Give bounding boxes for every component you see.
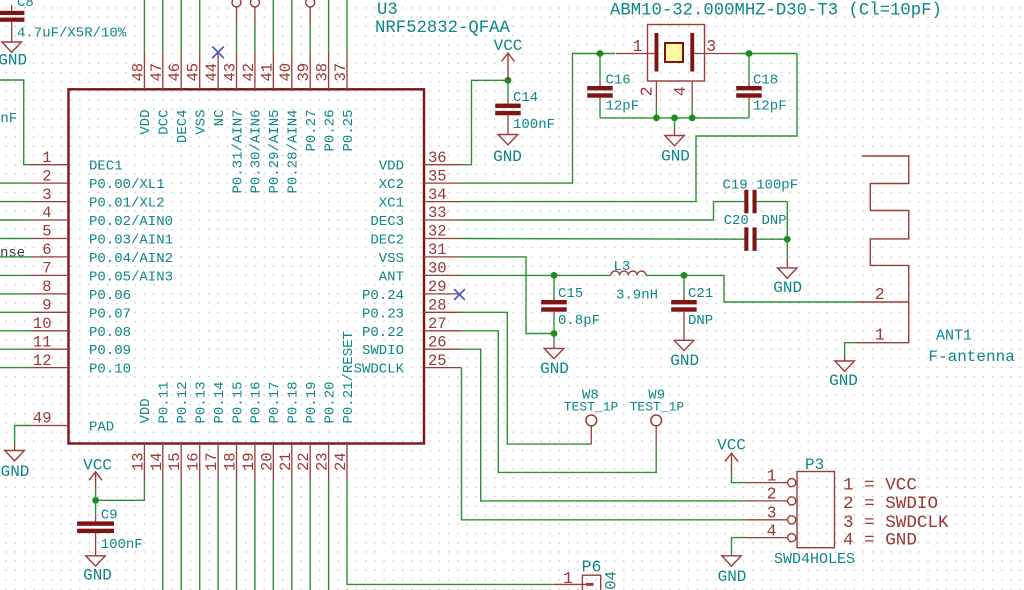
svg-text:XC1: XC1 bbox=[379, 196, 404, 212]
svg-text:47: 47 bbox=[148, 63, 166, 82]
svg-text:10: 10 bbox=[33, 315, 52, 333]
svg-text:P0.15: P0.15 bbox=[230, 381, 246, 423]
svg-text:P0.22: P0.22 bbox=[362, 325, 404, 341]
svg-text:SWD4HOLES: SWD4HOLES bbox=[774, 551, 855, 568]
svg-text:12pF: 12pF bbox=[753, 99, 787, 115]
svg-text:P3: P3 bbox=[805, 456, 824, 474]
svg-text:P0.20: P0.20 bbox=[322, 381, 338, 423]
svg-text:2: 2 bbox=[42, 167, 51, 185]
svg-text:P0.26: P0.26 bbox=[322, 110, 338, 152]
svg-text:P0.04/AIN2: P0.04/AIN2 bbox=[89, 251, 173, 267]
svg-text:P0.06: P0.06 bbox=[89, 288, 131, 304]
svg-text:38: 38 bbox=[314, 63, 332, 82]
svg-text:30: 30 bbox=[428, 260, 447, 278]
svg-text:PAD: PAD bbox=[89, 420, 114, 436]
svg-text:P0.03/AIN1: P0.03/AIN1 bbox=[89, 233, 173, 249]
svg-text:L3: L3 bbox=[614, 259, 631, 275]
svg-text:P0.18: P0.18 bbox=[286, 381, 302, 423]
svg-text:ANT: ANT bbox=[379, 269, 404, 285]
svg-text:Sense: Sense bbox=[0, 245, 25, 261]
svg-text:VCC: VCC bbox=[494, 37, 523, 55]
svg-text:3: 3 bbox=[706, 37, 716, 56]
svg-text:37: 37 bbox=[332, 63, 350, 82]
svg-text:P0.01/XL2: P0.01/XL2 bbox=[89, 196, 165, 212]
svg-text:8: 8 bbox=[42, 278, 51, 296]
svg-text:C20: C20 bbox=[724, 213, 749, 229]
svg-text:VSS: VSS bbox=[194, 110, 210, 135]
svg-text:P0.02/AIN0: P0.02/AIN0 bbox=[89, 214, 173, 230]
svg-text:P0.14: P0.14 bbox=[212, 381, 228, 423]
svg-text:15: 15 bbox=[166, 452, 184, 471]
svg-text:P0.29/AIN5: P0.29/AIN5 bbox=[267, 110, 283, 194]
svg-text:NC: NC bbox=[212, 110, 228, 127]
svg-text:27: 27 bbox=[428, 315, 447, 333]
svg-text:C15: C15 bbox=[558, 286, 583, 302]
svg-text:17: 17 bbox=[203, 452, 221, 471]
svg-text:GND: GND bbox=[829, 372, 858, 390]
svg-text:P0.16: P0.16 bbox=[249, 381, 265, 423]
svg-text:C21: C21 bbox=[688, 286, 713, 302]
svg-text:P0.21/RESET: P0.21/RESET bbox=[341, 331, 357, 423]
svg-text:DEC3: DEC3 bbox=[370, 214, 404, 230]
svg-text:C19 100pF: C19 100pF bbox=[723, 178, 799, 194]
svg-text:1: 1 bbox=[767, 466, 777, 485]
svg-text:C18: C18 bbox=[753, 73, 778, 89]
svg-text:F-antenna: F-antenna bbox=[928, 348, 1015, 366]
svg-text:P0.12: P0.12 bbox=[175, 381, 191, 423]
svg-text:12pF: 12pF bbox=[606, 99, 640, 115]
svg-text:P0.11: P0.11 bbox=[157, 381, 173, 423]
svg-text:18: 18 bbox=[222, 452, 240, 471]
svg-text:P6: P6 bbox=[582, 558, 602, 577]
svg-text:21: 21 bbox=[277, 452, 295, 471]
svg-text:42: 42 bbox=[240, 63, 258, 82]
svg-text:GND: GND bbox=[493, 148, 522, 166]
svg-text:36: 36 bbox=[428, 149, 447, 167]
svg-text:P0.31/AIN7: P0.31/AIN7 bbox=[230, 109, 246, 193]
svg-text:GND: GND bbox=[773, 279, 802, 297]
svg-text:TEST_1P: TEST_1P bbox=[630, 400, 685, 415]
svg-text:VCC: VCC bbox=[83, 456, 112, 474]
svg-text:33: 33 bbox=[428, 204, 447, 222]
svg-text:P0.27: P0.27 bbox=[304, 110, 320, 152]
svg-text:4 = GND: 4 = GND bbox=[843, 531, 917, 551]
svg-text:P0.23: P0.23 bbox=[362, 306, 404, 322]
svg-text:14: 14 bbox=[148, 452, 166, 471]
svg-text:NRF52832-QFAA: NRF52832-QFAA bbox=[375, 19, 510, 38]
svg-text:11: 11 bbox=[33, 333, 52, 351]
svg-text:25: 25 bbox=[428, 352, 447, 370]
svg-text:29: 29 bbox=[428, 278, 447, 296]
svg-text:2: 2 bbox=[767, 485, 777, 504]
svg-text:44: 44 bbox=[203, 63, 221, 82]
svg-text:12: 12 bbox=[33, 352, 52, 370]
svg-text:P0.19: P0.19 bbox=[304, 381, 320, 423]
svg-text:GND: GND bbox=[540, 360, 569, 378]
svg-text:DNP: DNP bbox=[762, 213, 787, 229]
svg-text:VCC: VCC bbox=[717, 437, 746, 455]
svg-text:45: 45 bbox=[185, 63, 203, 82]
svg-text:VDD: VDD bbox=[138, 398, 154, 423]
svg-text:P0.07: P0.07 bbox=[89, 306, 131, 322]
svg-text:2: 2 bbox=[875, 285, 885, 304]
svg-text:34: 34 bbox=[428, 186, 447, 204]
svg-text:P0.09: P0.09 bbox=[89, 343, 131, 359]
svg-text:100nF: 100nF bbox=[513, 117, 555, 133]
svg-text:0.8pF: 0.8pF bbox=[558, 313, 600, 329]
svg-text:4.7uF/X5R/10%: 4.7uF/X5R/10% bbox=[17, 26, 127, 42]
svg-text:P0.13: P0.13 bbox=[194, 381, 210, 423]
svg-text:16: 16 bbox=[185, 452, 203, 471]
svg-text:1: 1 bbox=[875, 326, 885, 345]
svg-text:22: 22 bbox=[295, 452, 313, 471]
svg-text:P0.00/XL1: P0.00/XL1 bbox=[89, 177, 165, 193]
svg-text:1 = VCC: 1 = VCC bbox=[843, 476, 917, 496]
svg-text:GND: GND bbox=[0, 52, 27, 70]
svg-text:U3: U3 bbox=[377, 1, 398, 20]
svg-text:4: 4 bbox=[42, 204, 51, 222]
svg-text:DEC2: DEC2 bbox=[370, 233, 404, 249]
svg-text:DNP: DNP bbox=[688, 313, 713, 329]
svg-text:DCC: DCC bbox=[157, 110, 173, 135]
svg-text:28: 28 bbox=[428, 297, 447, 315]
svg-text:2 = SWDIO: 2 = SWDIO bbox=[843, 494, 938, 514]
svg-text:6: 6 bbox=[42, 241, 51, 259]
svg-text:39: 39 bbox=[295, 63, 313, 82]
svg-text:100nF: 100nF bbox=[101, 537, 143, 553]
svg-text:TEST_1P: TEST_1P bbox=[564, 400, 619, 415]
svg-text:P0.30/AIN6: P0.30/AIN6 bbox=[249, 110, 265, 194]
svg-text:SWDIO: SWDIO bbox=[362, 343, 404, 359]
svg-text:P0.28/AIN4: P0.28/AIN4 bbox=[286, 110, 302, 194]
svg-text:9: 9 bbox=[42, 297, 51, 315]
svg-text:32: 32 bbox=[428, 223, 447, 241]
svg-text:4: 4 bbox=[671, 86, 690, 96]
svg-text:100nF: 100nF bbox=[0, 111, 17, 127]
svg-text:C14: C14 bbox=[513, 90, 538, 106]
svg-text:1: 1 bbox=[563, 569, 573, 588]
svg-text:20: 20 bbox=[258, 452, 276, 471]
svg-text:24: 24 bbox=[332, 452, 350, 471]
svg-text:GND: GND bbox=[718, 568, 747, 586]
svg-text:GND: GND bbox=[83, 567, 112, 585]
svg-text:41: 41 bbox=[258, 63, 276, 82]
svg-text:P0.25: P0.25 bbox=[341, 110, 357, 152]
svg-text:SWDCLK: SWDCLK bbox=[354, 362, 405, 378]
svg-text:GND: GND bbox=[661, 148, 690, 166]
svg-text:1: 1 bbox=[42, 149, 51, 167]
svg-text:VDD: VDD bbox=[379, 159, 404, 175]
svg-text:P0.17: P0.17 bbox=[267, 381, 283, 423]
svg-text:4: 4 bbox=[767, 521, 777, 540]
svg-text:46: 46 bbox=[166, 63, 184, 82]
svg-text:7: 7 bbox=[42, 260, 51, 278]
svg-text:P0.05/AIN3: P0.05/AIN3 bbox=[89, 269, 173, 285]
svg-text:3: 3 bbox=[42, 186, 51, 204]
svg-text:3.9nH: 3.9nH bbox=[616, 287, 658, 303]
svg-text:2: 2 bbox=[638, 86, 657, 96]
svg-text:DEC1: DEC1 bbox=[89, 159, 123, 175]
svg-text:5: 5 bbox=[42, 223, 51, 241]
svg-text:ANT1: ANT1 bbox=[936, 328, 972, 345]
svg-text:C16: C16 bbox=[606, 73, 631, 89]
svg-text:ABM10-32.000MHZ-D30-T3 (Cl=10p: ABM10-32.000MHZ-D30-T3 (Cl=10pF) bbox=[610, 2, 942, 21]
svg-text:19: 19 bbox=[240, 452, 258, 471]
svg-text:1: 1 bbox=[633, 37, 643, 56]
svg-text:48: 48 bbox=[129, 63, 147, 82]
svg-text:43: 43 bbox=[222, 63, 240, 82]
svg-text:35: 35 bbox=[428, 167, 447, 185]
svg-text:40: 40 bbox=[277, 63, 295, 82]
svg-text:49: 49 bbox=[33, 410, 52, 428]
svg-text:K04: K04 bbox=[603, 571, 621, 590]
svg-text:26: 26 bbox=[428, 333, 447, 351]
svg-text:23: 23 bbox=[314, 452, 332, 471]
svg-text:3: 3 bbox=[767, 504, 777, 523]
svg-text:C9: C9 bbox=[101, 508, 118, 524]
svg-text:P0.10: P0.10 bbox=[89, 362, 131, 378]
svg-text:DEC4: DEC4 bbox=[175, 110, 191, 144]
svg-text:GND: GND bbox=[1, 463, 30, 481]
svg-text:13: 13 bbox=[129, 452, 147, 471]
svg-text:31: 31 bbox=[428, 241, 447, 259]
svg-text:XC2: XC2 bbox=[379, 177, 404, 193]
svg-text:P0.24: P0.24 bbox=[362, 288, 404, 304]
svg-text:VSS: VSS bbox=[379, 251, 404, 267]
svg-text:VDD: VDD bbox=[138, 110, 154, 135]
svg-text:GND: GND bbox=[670, 352, 699, 370]
svg-text:C8: C8 bbox=[17, 0, 34, 11]
svg-text:P0.08: P0.08 bbox=[89, 325, 131, 341]
